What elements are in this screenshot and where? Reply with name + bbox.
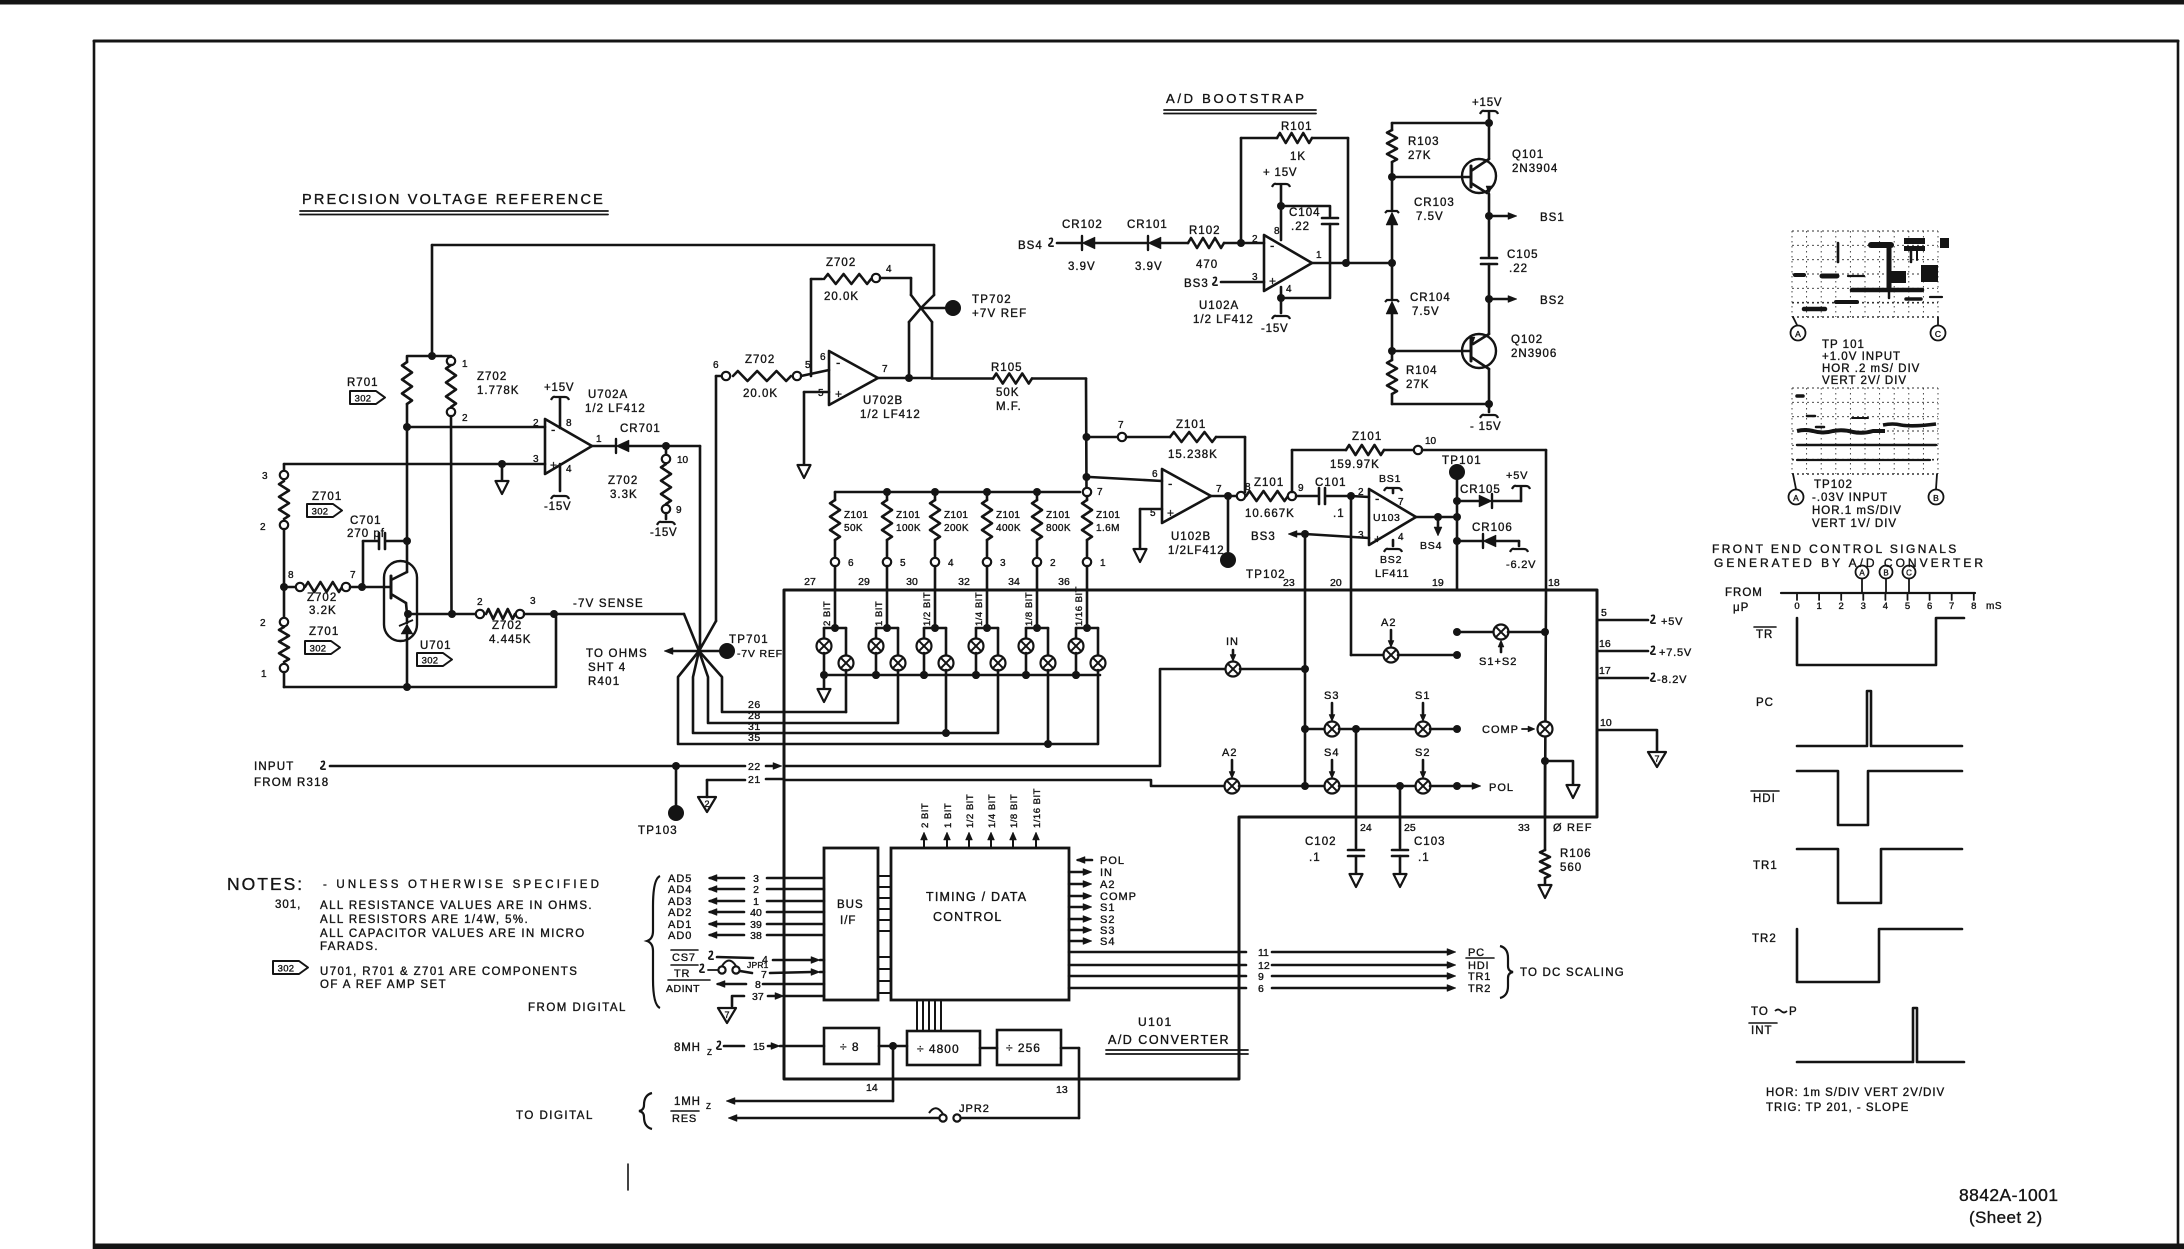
svg-text:BUS: BUS bbox=[837, 899, 864, 911]
switch DAC ladder right 2 BIT bbox=[845, 628, 848, 655]
svg-text:S4: S4 bbox=[1324, 747, 1339, 759]
svg-text:6: 6 bbox=[820, 352, 826, 363]
jumper JPR2 bbox=[953, 1114, 960, 1121]
svg-text:4: 4 bbox=[566, 464, 572, 475]
capacitor C104 .22 bbox=[1281, 206, 1330, 216]
resistor R103 27K bbox=[1391, 123, 1394, 130]
svg-text:S1: S1 bbox=[1415, 690, 1430, 702]
svg-text:ALL CAPACITOR VALUES ARE IN MI: ALL CAPACITOR VALUES ARE IN MICRO bbox=[320, 928, 586, 940]
svg-text:C: C bbox=[1935, 329, 1941, 339]
node 0-ref ground tap bbox=[1541, 757, 1549, 765]
svg-text:Z701: Z701 bbox=[309, 626, 339, 638]
svg-text:TO: TO bbox=[1751, 1006, 1769, 1018]
svg-text:B: B bbox=[1933, 493, 1939, 503]
svg-text:6: 6 bbox=[713, 360, 719, 371]
svg-text:CR701: CR701 bbox=[620, 423, 661, 435]
svg-text:CR104: CR104 bbox=[1410, 292, 1451, 304]
svg-text:(Sheet 2): (Sheet 2) bbox=[1969, 1208, 2043, 1227]
svg-text:302: 302 bbox=[422, 656, 439, 667]
svg-text:20.0K: 20.0K bbox=[743, 388, 778, 400]
svg-text:3.9V: 3.9V bbox=[1135, 261, 1163, 273]
ground below U102B +input bbox=[1140, 508, 1162, 511]
svg-text:1 BIT: 1 BIT bbox=[874, 601, 885, 626]
svg-text:COMP: COMP bbox=[1482, 724, 1519, 736]
svg-text:HOR.1 mS/DIV: HOR.1 mS/DIV bbox=[1812, 505, 1902, 517]
resistor R102 470 bbox=[1188, 238, 1224, 248]
svg-text:CONTROL: CONTROL bbox=[933, 910, 1003, 924]
svg-text:FROM R318: FROM R318 bbox=[254, 777, 329, 789]
resistor Z702 3.2K (base) bbox=[288, 586, 296, 589]
svg-text:P: P bbox=[1789, 1006, 1798, 1018]
svg-text:Z101: Z101 bbox=[1352, 431, 1382, 443]
capacitor C102 .1 bbox=[1348, 849, 1364, 852]
tag 302 for R701 bbox=[350, 391, 385, 404]
svg-text:U101: U101 bbox=[1138, 1015, 1173, 1029]
capacitor C105 .22 bbox=[1488, 216, 1491, 256]
svg-text:S3: S3 bbox=[1324, 690, 1339, 702]
diode CR701 bbox=[592, 445, 616, 448]
resistor network Z701 upper half bbox=[280, 471, 288, 479]
svg-text:Z702: Z702 bbox=[492, 620, 522, 632]
svg-text:21: 21 bbox=[748, 774, 761, 786]
svg-text:7: 7 bbox=[1949, 601, 1954, 612]
svg-text:C104: C104 bbox=[1289, 207, 1321, 219]
wire fan 31 (1/2+1/4 BIT) bbox=[693, 651, 997, 733]
svg-text:POL: POL bbox=[1489, 782, 1514, 794]
wire TR1 to DC scaling bbox=[1069, 975, 1246, 978]
svg-text:CR105: CR105 bbox=[1460, 484, 1501, 496]
svg-text:+: + bbox=[1374, 532, 1381, 546]
svg-text:Z101: Z101 bbox=[1254, 477, 1284, 489]
resistor Z702 20.0K (feedback) bbox=[824, 274, 871, 284]
wire bit line 1/2 BIT into converter pin 30 bbox=[934, 566, 937, 628]
svg-text:TO OHMS: TO OHMS bbox=[586, 648, 648, 660]
resistor Z101 100K bbox=[883, 488, 891, 496]
svg-text:CR103: CR103 bbox=[1414, 197, 1455, 209]
wire bit line 1/16 BIT into converter pin 36 bbox=[1086, 566, 1089, 628]
wire timing output POL bbox=[1076, 857, 1085, 864]
wire pin 25 to C103 bbox=[1399, 786, 1402, 848]
svg-text:Z701: Z701 bbox=[312, 491, 342, 503]
svg-text:8MH: 8MH bbox=[674, 1042, 701, 1054]
switch DAC ladder right 1/2 BIT bbox=[945, 628, 948, 655]
svg-text:9: 9 bbox=[676, 505, 682, 516]
node TP103 tap bbox=[672, 762, 680, 770]
op-amp U102A 1/2 LF412 bbox=[1264, 235, 1312, 291]
svg-text:A/D CONVERTER: A/D CONVERTER bbox=[1108, 1033, 1230, 1047]
svg-text:Z702: Z702 bbox=[307, 592, 337, 604]
svg-text:-: - bbox=[1168, 476, 1172, 491]
wire pin 33 0 REF to R106 bbox=[1544, 761, 1547, 850]
svg-text:HOR: 1m S/DIV VERT 2V/DIV: HOR: 1m S/DIV VERT 2V/DIV bbox=[1766, 1087, 1945, 1099]
svg-text:2: 2 bbox=[462, 413, 468, 424]
resistor Z101 159.97K feedback around U103 bbox=[1291, 450, 1294, 492]
wire bit line 1/8 BIT into converter pin 34 bbox=[1036, 566, 1039, 628]
node -7V sense loop junction bbox=[550, 610, 558, 618]
svg-text:R104: R104 bbox=[1406, 365, 1438, 377]
sheet border frame bbox=[94, 40, 2178, 43]
op-amp U702A 1/2 LF412 bbox=[545, 419, 592, 474]
node bit split 1 BIT bbox=[883, 624, 891, 632]
svg-text:Q101: Q101 bbox=[1512, 149, 1544, 161]
svg-text:24: 24 bbox=[1360, 822, 1372, 834]
node BS2 out bbox=[1485, 295, 1493, 303]
svg-text:1: 1 bbox=[1816, 601, 1821, 612]
svg-text:C101: C101 bbox=[1315, 477, 1347, 489]
svg-text:10.667K: 10.667K bbox=[1245, 508, 1295, 520]
svg-text:-: - bbox=[551, 422, 555, 437]
op-amp U103 LF411 bbox=[1369, 489, 1416, 545]
svg-text:1: 1 bbox=[462, 359, 468, 370]
svg-text:CR106: CR106 bbox=[1472, 522, 1513, 534]
wire bit line 1 BIT into converter pin 29 bbox=[886, 566, 889, 628]
test point TP701 bbox=[699, 650, 719, 653]
svg-text:3: 3 bbox=[530, 596, 536, 607]
scope photo 2 grid bbox=[1791, 388, 1793, 474]
capacitor C701 270pf bbox=[362, 541, 365, 587]
block divide-by-8 bbox=[824, 1028, 879, 1064]
svg-text:9: 9 bbox=[1298, 483, 1304, 494]
svg-text:POL: POL bbox=[1100, 855, 1125, 867]
wire row 37 to sheet ground 7 bbox=[732, 996, 744, 1006]
svg-text:BS2: BS2 bbox=[1540, 295, 1565, 307]
svg-text:I/F: I/F bbox=[840, 915, 856, 927]
svg-text:8: 8 bbox=[566, 418, 572, 429]
svg-text:560: 560 bbox=[1560, 862, 1582, 874]
resistor Z702 4.445K bbox=[476, 610, 484, 618]
svg-text:1/2 BIT: 1/2 BIT bbox=[922, 592, 933, 626]
scope photo 2 pointer B bbox=[1936, 474, 1937, 489]
top edge black bar bbox=[0, 0, 2184, 5]
wire DAC summing bus to ground bbox=[824, 674, 1100, 677]
svg-text:Z702: Z702 bbox=[608, 475, 638, 487]
block divide-by-4800 bbox=[907, 1031, 980, 1065]
svg-text:U702B: U702B bbox=[863, 395, 903, 407]
svg-text:VERT 2V/ DIV: VERT 2V/ DIV bbox=[1822, 375, 1907, 387]
svg-text:20.0K: 20.0K bbox=[824, 291, 859, 303]
wire S3/S1 row bbox=[1301, 725, 1309, 733]
svg-text:-6.2V: -6.2V bbox=[1506, 559, 1536, 571]
ground near U702A bbox=[496, 481, 509, 494]
node bit split 1/8 BIT bbox=[1033, 624, 1041, 632]
svg-text:2: 2 bbox=[477, 597, 483, 608]
wire timing output A2 bbox=[1069, 883, 1085, 886]
svg-text:Ø REF: Ø REF bbox=[1553, 822, 1593, 834]
svg-text:ALL RESISTANCE VALUES ARE IN O: ALL RESISTANCE VALUES ARE IN OHMS. bbox=[320, 900, 593, 912]
svg-text:9: 9 bbox=[1258, 971, 1264, 983]
svg-text:C103: C103 bbox=[1414, 836, 1446, 848]
svg-text:3.2K: 3.2K bbox=[309, 605, 337, 617]
svg-text:+15V: +15V bbox=[1472, 97, 1502, 109]
svg-text:34: 34 bbox=[1008, 576, 1020, 588]
resistor Z101 800K bbox=[1033, 488, 1041, 496]
switch A2 (bottom) bbox=[1225, 779, 1240, 794]
svg-text:100K: 100K bbox=[896, 523, 921, 534]
switch DAC ladder left 1 BIT bbox=[875, 628, 878, 639]
wire Z702 pin2 down to emitter row bbox=[450, 416, 453, 614]
resistor Z702 3.3K to -15V bbox=[665, 446, 668, 455]
wire timing output COMP bbox=[1069, 895, 1085, 898]
svg-text:8: 8 bbox=[755, 979, 761, 991]
svg-text:-8.2V: -8.2V bbox=[1657, 674, 1687, 686]
svg-text:BS4: BS4 bbox=[1018, 240, 1043, 252]
svg-text:- UNLESS OTHERWISE SPECIFIED: - UNLESS OTHERWISE SPECIFIED bbox=[323, 879, 602, 891]
resistor Z702 1.778K (vertical) bbox=[450, 356, 453, 357]
wire timing output S3 bbox=[1069, 929, 1085, 932]
svg-text:2 BIT: 2 BIT bbox=[822, 601, 833, 626]
svg-text:1: 1 bbox=[596, 434, 602, 445]
svg-text:TP102: TP102 bbox=[1814, 479, 1853, 491]
node bit split 2 BIT bbox=[831, 624, 839, 632]
svg-text:GENERATED BY A/D CONVERTER: GENERATED BY A/D CONVERTER bbox=[1714, 556, 1986, 570]
svg-text:50K: 50K bbox=[844, 523, 863, 534]
tag 302 for U701 bbox=[417, 653, 452, 666]
svg-text:A2: A2 bbox=[1100, 879, 1115, 891]
svg-text:INPUT: INPUT bbox=[254, 761, 295, 773]
svg-text:+: + bbox=[550, 458, 557, 472]
switch DAC ladder right 1/16 BIT bbox=[1097, 628, 1100, 655]
U702A +15V supply pin 8 bbox=[559, 398, 562, 428]
svg-text:1/16 BIT: 1/16 BIT bbox=[1074, 586, 1085, 626]
svg-text:-7V REF: -7V REF bbox=[737, 648, 783, 660]
svg-text:10: 10 bbox=[1600, 717, 1612, 729]
svg-text:38: 38 bbox=[750, 930, 762, 942]
svg-text:11: 11 bbox=[1258, 947, 1269, 959]
svg-text:CS7: CS7 bbox=[672, 952, 696, 964]
node +15V / C104 bbox=[1277, 202, 1285, 210]
diode CR101 3.9V bbox=[1148, 237, 1161, 249]
svg-text:TP101: TP101 bbox=[1442, 455, 1482, 467]
switch COMP bbox=[1538, 722, 1553, 737]
svg-text:6: 6 bbox=[848, 558, 854, 569]
wire BS3 vertical line 23 bbox=[1304, 534, 1307, 786]
switch DAC ladder left 1/8 BIT bbox=[1025, 628, 1028, 639]
svg-text:8: 8 bbox=[288, 570, 294, 581]
svg-text:1/8 BIT: 1/8 BIT bbox=[1024, 592, 1035, 626]
brace TO DC SCALING bbox=[1500, 946, 1513, 998]
svg-text:R401: R401 bbox=[588, 676, 620, 688]
svg-text:2: 2 bbox=[260, 522, 266, 533]
svg-text:+: + bbox=[1269, 274, 1276, 288]
svg-text:BS3: BS3 bbox=[1251, 531, 1276, 543]
svg-text:17: 17 bbox=[1599, 665, 1611, 677]
test point TP702 +7V REF bbox=[921, 307, 946, 310]
sheet pointer 7 on line 37 bbox=[718, 1008, 736, 1023]
svg-text:IN: IN bbox=[1226, 636, 1239, 648]
scope photo 1 trace bbox=[1871, 242, 1891, 248]
node ground stub on +input bbox=[498, 460, 506, 468]
svg-text:40: 40 bbox=[750, 907, 762, 919]
svg-text:4: 4 bbox=[1398, 532, 1404, 543]
resistor Z101 400K bbox=[983, 488, 991, 496]
wire bootstrap -15V bottom rail bbox=[1392, 403, 1489, 406]
svg-text:÷ 8: ÷ 8 bbox=[840, 1040, 860, 1054]
svg-text:+1.0V INPUT: +1.0V INPUT bbox=[1822, 351, 1901, 363]
marker circles A B C bbox=[1856, 566, 1869, 579]
svg-text:NOTES:: NOTES: bbox=[227, 874, 304, 894]
node U102A inverting input bbox=[1237, 239, 1245, 247]
svg-text:1/4 BIT: 1/4 BIT bbox=[987, 794, 998, 828]
svg-text:2: 2 bbox=[753, 884, 759, 896]
node Z101 feedback tap bbox=[1083, 433, 1091, 441]
svg-text:U102A: U102A bbox=[1199, 300, 1239, 312]
svg-text:Z101: Z101 bbox=[996, 510, 1020, 521]
svg-text:27K: 27K bbox=[1408, 150, 1431, 162]
svg-text:33: 33 bbox=[1518, 822, 1530, 834]
resistor R101 1K feedback bbox=[1240, 138, 1243, 243]
svg-text:-: - bbox=[1270, 238, 1274, 253]
svg-text:27: 27 bbox=[804, 576, 816, 588]
svg-text:OF A REF AMP SET: OF A REF AMP SET bbox=[320, 979, 447, 991]
svg-text:2: 2 bbox=[533, 418, 539, 429]
svg-text:JPR2: JPR2 bbox=[959, 1103, 990, 1115]
resistor R701 (vertical) bbox=[406, 356, 409, 362]
wire fan 26 (2 BIT) bbox=[699, 651, 846, 712]
svg-text:50K: 50K bbox=[996, 387, 1019, 399]
svg-text:IN: IN bbox=[1100, 867, 1113, 879]
svg-text:10: 10 bbox=[677, 455, 689, 466]
svg-text:10: 10 bbox=[1425, 436, 1437, 447]
svg-text:15.238K: 15.238K bbox=[1168, 449, 1218, 461]
svg-text:TO DIGITAL: TO DIGITAL bbox=[516, 1110, 594, 1122]
svg-text:.22: .22 bbox=[1291, 221, 1310, 233]
svg-text:-15V: -15V bbox=[544, 501, 572, 513]
wire U103 pin3 from BS3 line bbox=[1305, 534, 1369, 538]
wire divider chain bbox=[879, 1045, 907, 1048]
switch DAC ladder left 1/2 BIT bbox=[923, 628, 926, 639]
svg-text:Z101: Z101 bbox=[1096, 510, 1120, 521]
wire DAC ladder top bus bbox=[835, 491, 1080, 494]
arrow POL out bbox=[1457, 785, 1474, 788]
svg-text:1/4 BIT: 1/4 BIT bbox=[974, 592, 985, 626]
node C701 to collector line bbox=[403, 537, 411, 545]
svg-text:27K: 27K bbox=[1406, 379, 1429, 391]
svg-text:302: 302 bbox=[312, 507, 329, 518]
svg-text:R101: R101 bbox=[1281, 121, 1313, 133]
svg-text:TR2: TR2 bbox=[1468, 983, 1491, 995]
svg-text:CR101: CR101 bbox=[1127, 219, 1168, 231]
svg-text:BS1: BS1 bbox=[1540, 212, 1565, 224]
svg-text:S1+S2: S1+S2 bbox=[1479, 656, 1517, 668]
test point TP102 bbox=[1227, 496, 1230, 551]
svg-text:22: 22 bbox=[748, 761, 761, 773]
svg-text:÷ 256: ÷ 256 bbox=[1006, 1041, 1041, 1055]
node Z702 1.778K bottom junction bbox=[448, 610, 456, 618]
svg-text:U701, R701 & Z701 ARE COMPONEN: U701, R701 & Z701 ARE COMPONENTS bbox=[320, 966, 578, 978]
svg-text:A: A bbox=[1793, 493, 1799, 503]
resistor Z101 200K bbox=[931, 488, 939, 496]
svg-text:7: 7 bbox=[761, 969, 767, 981]
svg-text:TO DC SCALING: TO DC SCALING bbox=[1520, 967, 1625, 979]
svg-text:270 pf: 270 pf bbox=[347, 528, 385, 540]
node base junction with C701 bbox=[358, 583, 366, 591]
svg-text:AD2: AD2 bbox=[668, 907, 692, 919]
sheet pointer 7 on pin 10 bbox=[1648, 752, 1666, 767]
svg-text:Z702: Z702 bbox=[477, 371, 507, 383]
svg-text:2N3906: 2N3906 bbox=[1511, 348, 1557, 360]
zener CR104 7.5V bbox=[1391, 263, 1394, 300]
brace FROM DIGITAL bbox=[647, 876, 660, 1008]
svg-text:301,: 301, bbox=[275, 899, 301, 911]
svg-text:18: 18 bbox=[1548, 577, 1560, 589]
svg-text:BS2: BS2 bbox=[1380, 554, 1402, 566]
svg-text:400K: 400K bbox=[996, 523, 1021, 534]
wire Z701 bottom to rail bbox=[283, 672, 286, 687]
tag 302 for Z701 upper bbox=[307, 504, 342, 517]
tag 302 for Z701 lower bbox=[305, 641, 340, 654]
svg-text:3: 3 bbox=[1861, 601, 1866, 612]
wire R105 down to DAC summing node bbox=[1085, 379, 1088, 493]
svg-text:R106: R106 bbox=[1560, 848, 1592, 860]
ground below U702B +input bbox=[804, 391, 829, 394]
svg-text:20: 20 bbox=[1330, 577, 1342, 589]
arrow BS4 from output bbox=[1437, 521, 1440, 528]
stray mark bbox=[627, 1164, 629, 1190]
svg-text:1/2 LF412: 1/2 LF412 bbox=[585, 403, 646, 415]
node U102B inv input tap bbox=[1083, 473, 1091, 481]
switch A2 (top) bbox=[1384, 648, 1399, 663]
block divide-by-256 bbox=[997, 1030, 1061, 1065]
wire U102A output bbox=[1312, 262, 1392, 265]
svg-text:INT: INT bbox=[1751, 1025, 1773, 1037]
svg-text:302: 302 bbox=[355, 394, 372, 405]
svg-text:1/2LF412: 1/2LF412 bbox=[1168, 545, 1225, 557]
wire IN switch to BS3 line bbox=[1240, 668, 1305, 671]
node U102B output bbox=[1211, 495, 1237, 498]
wire top feedback rail +7V REF to reference top bbox=[432, 244, 934, 247]
svg-text:2N3904: 2N3904 bbox=[1512, 163, 1558, 175]
wire bit line 1/4 BIT into converter pin 32 bbox=[986, 566, 989, 628]
node Q102 base tap bbox=[1388, 347, 1396, 355]
op-amp U102B 1/2 LF412 bbox=[1162, 469, 1211, 523]
scope photo 1 pointer A bbox=[1793, 317, 1797, 325]
wire U702B feedback branch bbox=[810, 279, 813, 376]
svg-text:R105: R105 bbox=[991, 362, 1023, 374]
svg-text:470: 470 bbox=[1196, 259, 1218, 271]
jumper JPR1 bbox=[718, 966, 725, 973]
resistor R104 27K bbox=[1391, 351, 1394, 360]
svg-text:29: 29 bbox=[858, 576, 870, 588]
svg-text:LF411: LF411 bbox=[1375, 568, 1409, 580]
svg-text:3: 3 bbox=[1000, 558, 1006, 569]
svg-text:2: 2 bbox=[1839, 601, 1844, 612]
svg-text:BS4: BS4 bbox=[1420, 540, 1442, 552]
svg-text:14: 14 bbox=[866, 1082, 878, 1094]
svg-text:VERT 1V/ DIV: VERT 1V/ DIV bbox=[1812, 518, 1897, 530]
resistor Z101 10.667K bbox=[1246, 491, 1288, 501]
svg-text:RES: RES bbox=[672, 1113, 697, 1125]
svg-text:TR1: TR1 bbox=[1753, 860, 1778, 872]
resistor Z101 15.238K feedback bbox=[1090, 436, 1118, 439]
svg-text:+: + bbox=[835, 387, 842, 401]
svg-text:TR1: TR1 bbox=[1468, 971, 1491, 983]
svg-text:Z: Z bbox=[707, 1048, 712, 1057]
resistor Z101 1.6M bbox=[1083, 488, 1091, 496]
svg-text:7: 7 bbox=[1398, 497, 1404, 508]
svg-text:TRIG: TP 201, - SLOPE: TRIG: TP 201, - SLOPE bbox=[1766, 1102, 1909, 1114]
svg-text:7: 7 bbox=[1097, 487, 1103, 498]
svg-text:4: 4 bbox=[1286, 284, 1292, 295]
svg-text:3.9V: 3.9V bbox=[1068, 261, 1096, 273]
svg-text:6: 6 bbox=[1152, 469, 1158, 480]
svg-text:U102B: U102B bbox=[1171, 531, 1211, 543]
svg-text:4.445K: 4.445K bbox=[489, 634, 531, 646]
brace TO DIGITAL bbox=[639, 1093, 652, 1129]
svg-text:16: 16 bbox=[1599, 638, 1611, 650]
node bit split 1/16 BIT bbox=[1083, 624, 1091, 632]
wire TO OHMS SHT 4 R401 bbox=[668, 650, 699, 653]
svg-text:S2: S2 bbox=[1415, 747, 1430, 759]
